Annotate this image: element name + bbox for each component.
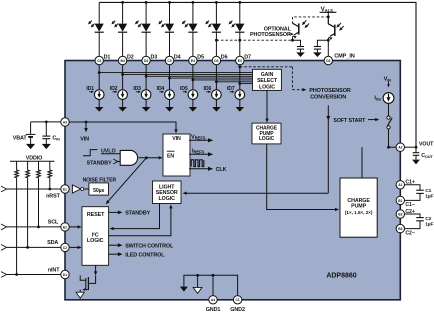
label I2C LOGIC bbox=[87, 233, 104, 245]
svg-text:ID3: ID3 bbox=[133, 86, 141, 92]
label SCL bbox=[48, 220, 59, 226]
svg-text:(1×, 1.5×, 2×): (1×, 1.5×, 2×) bbox=[345, 210, 373, 216]
label CMP_IN bbox=[334, 53, 355, 59]
wire D7 bus to gain select bbox=[240, 83, 253, 85]
wire VDDIO rail bbox=[10, 160, 55, 162]
UVLO step glyph bbox=[83, 150, 98, 156]
battery VBAT bbox=[26, 122, 36, 144]
wire main emitter to CMP_IN bbox=[327, 40, 329, 56]
ground nINT open bbox=[76, 292, 84, 298]
ground ID2 bbox=[118, 107, 127, 112]
pin C2+ bbox=[396, 210, 404, 218]
wire ID2 to ground bbox=[122, 99, 124, 107]
wire main cap branch bbox=[317, 40, 328, 43]
wire VOUT pin to rail bbox=[405, 146, 417, 148]
LED D5 bbox=[182, 21, 198, 33]
junction pull-up 4 bbox=[48, 188, 51, 191]
label VOUT bbox=[419, 141, 434, 147]
svg-text:STANDBY: STANDBY bbox=[87, 161, 112, 167]
junction VIN arrow bbox=[85, 121, 88, 124]
svg-text:VOUT: VOUT bbox=[419, 141, 434, 147]
svg-text:D6: D6 bbox=[221, 54, 228, 60]
svg-text:C4: C4 bbox=[97, 59, 101, 63]
wire I2C to NMOS bbox=[94, 265, 97, 275]
label VIN right bbox=[384, 76, 392, 82]
dashed wire VALS to optional photosensor bbox=[293, 17, 329, 22]
label EN in bias box bbox=[167, 151, 175, 159]
label VIN internal bbox=[80, 136, 89, 142]
svg-text:ADP8860: ADP8860 bbox=[326, 273, 356, 280]
svg-text:IREFS: IREFS bbox=[192, 149, 205, 155]
label NOISE FILTER bbox=[83, 177, 117, 183]
junction rail-D3 bbox=[145, 1, 148, 4]
pin nRST bbox=[61, 185, 69, 193]
current source ID1 bbox=[86, 86, 104, 99]
phototransistor main bbox=[328, 17, 343, 40]
AND gate U1 bbox=[120, 150, 137, 165]
label SDA bbox=[47, 240, 58, 246]
pin C2- bbox=[396, 224, 404, 232]
svg-text:B1: B1 bbox=[398, 199, 402, 203]
junction D5 bus bbox=[192, 79, 195, 82]
wire RESET to STANDBY bbox=[109, 211, 123, 215]
arrow VIN right bbox=[387, 81, 390, 87]
wire anode D4 bbox=[169, 2, 171, 23]
switch soft start bbox=[387, 116, 392, 129]
label C2- bbox=[405, 230, 414, 236]
junction pull-up 2 bbox=[26, 246, 29, 249]
label nRST bbox=[46, 193, 60, 199]
label C1 1uF bbox=[425, 188, 433, 200]
label C2 1uF bbox=[425, 216, 433, 228]
arrow into charge pump logic bbox=[265, 119, 268, 123]
svg-text:D1: D1 bbox=[63, 273, 67, 277]
label STANDBY out bbox=[125, 211, 150, 217]
junction D7 dashed bbox=[238, 65, 241, 68]
capacitor CIN bbox=[42, 122, 50, 144]
svg-text:ILED CONTROL: ILED CONTROL bbox=[125, 252, 165, 258]
wire SWITCH CONTROL bbox=[109, 243, 123, 247]
wire anode D1 bbox=[98, 2, 100, 23]
wire CLK out bbox=[189, 167, 213, 171]
svg-text:B2: B2 bbox=[398, 212, 402, 216]
svg-text:C3: C3 bbox=[167, 59, 171, 63]
wire charge pump top stub bbox=[361, 147, 363, 178]
wire internal ground bus bbox=[184, 275, 238, 295]
resistor pull-up 4 bbox=[48, 161, 52, 189]
svg-text:C1−: C1− bbox=[405, 202, 414, 208]
wire AND output to EN bbox=[139, 157, 160, 159]
junction D7 photo bbox=[238, 39, 241, 42]
junction rail-D6 bbox=[215, 1, 218, 4]
pin D1 bbox=[95, 56, 103, 64]
label RESET bbox=[87, 212, 105, 218]
junction D3 bus bbox=[145, 75, 148, 78]
wire D5 to current sink bbox=[192, 65, 194, 90]
current source ID3 bbox=[133, 86, 151, 99]
pin SDA bbox=[61, 243, 69, 251]
svg-text:1µF: 1µF bbox=[425, 194, 433, 200]
wire I2C to light sensor bbox=[109, 204, 173, 235]
wire D3 bus to gain select bbox=[146, 75, 252, 77]
label PHOTOSENSOR CONVERSION bbox=[309, 88, 351, 100]
svg-text:CONVERSION: CONVERSION bbox=[310, 94, 346, 100]
wire LED anode rail to VOUT node bbox=[99, 2, 416, 147]
svg-text:D3: D3 bbox=[151, 54, 158, 60]
ground COUT bbox=[412, 160, 420, 165]
wire SDA bbox=[1, 245, 61, 251]
svg-text:C2: C2 bbox=[63, 246, 67, 250]
label D5 bbox=[197, 54, 204, 60]
svg-text:VBAT: VBAT bbox=[13, 135, 28, 141]
wire nINT bbox=[1, 272, 61, 278]
LED D4 bbox=[158, 21, 174, 33]
wire D5 bus to gain select bbox=[193, 79, 253, 81]
label D7 bbox=[244, 54, 251, 60]
svg-text:SDA: SDA bbox=[47, 240, 58, 246]
wire VIN stub down bbox=[85, 122, 87, 129]
arrow VIN stub bbox=[84, 128, 88, 132]
svg-text:50µs: 50µs bbox=[93, 188, 104, 194]
pin C1+ bbox=[396, 181, 404, 189]
ground ID1 bbox=[95, 107, 104, 112]
junction AND output bbox=[145, 156, 148, 159]
label GAIN SELECT LOGIC bbox=[257, 72, 278, 90]
pin GND2 bbox=[233, 296, 241, 304]
label SOFT START bbox=[333, 118, 366, 124]
label C1+ bbox=[405, 179, 414, 185]
net VALS label bbox=[321, 6, 334, 13]
svg-text:RESET: RESET bbox=[87, 212, 105, 218]
svg-text:PHOTOSENSOR: PHOTOSENSOR bbox=[309, 88, 351, 94]
pin CMP_IN bbox=[324, 56, 332, 64]
resistor pull-up 2 bbox=[26, 161, 30, 247]
svg-text:STANDBY: STANDBY bbox=[125, 211, 150, 217]
label VREFS bbox=[191, 135, 206, 141]
phototransistor optional bbox=[293, 20, 310, 39]
pin D4 bbox=[165, 56, 173, 64]
wire VREFS out bbox=[189, 138, 213, 142]
label nINT bbox=[48, 267, 60, 273]
wire anode D5 bbox=[192, 2, 194, 23]
wire anode D6 bbox=[215, 2, 217, 23]
junction main emitter bbox=[327, 39, 330, 42]
svg-text:nINT: nINT bbox=[48, 267, 60, 273]
wire anode D2 bbox=[122, 2, 124, 23]
current source ID5 bbox=[180, 86, 198, 99]
ground ID3 bbox=[142, 107, 151, 112]
svg-text:D2: D2 bbox=[127, 54, 134, 60]
pin D7 bbox=[236, 56, 244, 64]
svg-text:VIN: VIN bbox=[80, 136, 89, 142]
label STANDBY into gate bbox=[87, 161, 112, 167]
svg-text:D1: D1 bbox=[104, 54, 111, 60]
arrow photosensor conversion bbox=[302, 88, 306, 91]
LED D3 bbox=[135, 21, 151, 33]
ground ID7 bbox=[236, 107, 245, 112]
current source ID4 bbox=[157, 86, 175, 99]
svg-text:D5: D5 bbox=[197, 54, 204, 60]
wire ID7 to ground bbox=[239, 99, 241, 107]
svg-text:LOGIC: LOGIC bbox=[259, 84, 275, 90]
junction D2 bus bbox=[121, 73, 124, 76]
wire VIN internal bbox=[69, 122, 176, 131]
capacitor COUT bbox=[413, 147, 420, 159]
VALS rail bar bbox=[320, 11, 337, 13]
wire VBAT/CIN to VIN pin bbox=[31, 121, 61, 123]
svg-text:ID7: ID7 bbox=[227, 86, 235, 92]
svg-text:SCL: SCL bbox=[48, 220, 59, 226]
junction rail-D4 bbox=[168, 1, 171, 4]
dashed wire D7 to photosensor conversion bbox=[240, 67, 304, 90]
pin D2 bbox=[118, 56, 126, 64]
wire UVLO to AND gate bbox=[101, 153, 120, 155]
svg-text:LOGIC: LOGIC bbox=[259, 136, 275, 142]
arrow SDA into I2C bbox=[69, 246, 81, 249]
svg-text:E2: E2 bbox=[63, 225, 67, 229]
svg-text:GAIN: GAIN bbox=[261, 72, 274, 78]
svg-text:VDDIO: VDDIO bbox=[26, 155, 43, 161]
label D4 bbox=[174, 54, 181, 60]
label VIN in bias box bbox=[172, 136, 181, 142]
wire GND1 bbox=[212, 275, 214, 295]
pin C1- bbox=[396, 196, 404, 204]
svg-text:A3: A3 bbox=[63, 120, 67, 124]
capacitor C1 bbox=[404, 185, 423, 201]
wire D2 to current sink bbox=[122, 65, 124, 90]
wire D4 to current sink bbox=[169, 65, 171, 90]
label UVLO bbox=[101, 148, 116, 154]
block gain select logic bbox=[253, 69, 282, 90]
svg-text:B4: B4 bbox=[120, 59, 124, 63]
wire VALS to phototransistors bbox=[327, 12, 329, 24]
svg-text:E4: E4 bbox=[191, 59, 195, 63]
capacitor optional photosensor bbox=[297, 43, 304, 52]
svg-text:A1: A1 bbox=[398, 183, 402, 187]
label D2 bbox=[127, 54, 134, 60]
label ILED CONTROL bbox=[125, 252, 165, 258]
svg-text:ID1: ID1 bbox=[86, 86, 94, 92]
junction gnd open bbox=[196, 274, 199, 277]
svg-text:C2−: C2− bbox=[405, 230, 414, 236]
svg-text:B3: B3 bbox=[398, 227, 402, 231]
svg-text:GND2: GND2 bbox=[230, 307, 245, 313]
pin D3 bbox=[142, 56, 150, 64]
svg-text:ID2: ID2 bbox=[110, 86, 118, 92]
wire D6 to current sink bbox=[215, 65, 217, 90]
junction rail-D7 bbox=[238, 1, 241, 4]
block charge pump logic bbox=[252, 123, 281, 144]
label LIGHT SENSOR LOGIC bbox=[156, 184, 178, 202]
ground ID6 bbox=[212, 107, 221, 112]
resistor pull-up 1 bbox=[15, 161, 19, 274]
wire charge pump logic to charge pump bbox=[267, 144, 339, 211]
arrow VIN into bias box bbox=[174, 129, 177, 133]
svg-text:VIN: VIN bbox=[172, 136, 181, 142]
wire CMP_IN down bbox=[327, 105, 329, 193]
label D3 bbox=[151, 54, 158, 60]
ground VBAT bbox=[26, 144, 35, 149]
arrow SCL into I2C bbox=[69, 225, 81, 228]
label CLK bbox=[216, 167, 227, 173]
svg-text:1µF: 1µF bbox=[425, 222, 433, 228]
ground CIN bbox=[42, 144, 51, 149]
arrow to soft start switch bbox=[368, 118, 379, 121]
wire D6 bus to gain select bbox=[216, 81, 252, 83]
svg-text:A4: A4 bbox=[211, 298, 215, 302]
svg-text:COUT: COUT bbox=[421, 153, 433, 159]
svg-text:D3: D3 bbox=[214, 59, 218, 63]
svg-text:E1: E1 bbox=[63, 187, 67, 191]
wire D7 to current sink bbox=[239, 65, 241, 90]
LED D6 bbox=[205, 21, 221, 33]
wire cathode D4 bbox=[169, 32, 171, 56]
svg-text:CIN: CIN bbox=[52, 136, 60, 142]
label GND2 bbox=[230, 307, 245, 313]
svg-text:C1: C1 bbox=[425, 188, 431, 194]
wire switch to VOUT bbox=[388, 129, 390, 147]
junction pull-up 3 bbox=[37, 226, 40, 229]
junction D1 bus bbox=[98, 71, 101, 74]
svg-text:GND1: GND1 bbox=[206, 307, 221, 313]
wire ISS to switch bbox=[388, 103, 390, 116]
pin VIN bbox=[61, 118, 69, 126]
junction pull-up 1 bbox=[15, 273, 18, 276]
label IREFS bbox=[192, 149, 205, 155]
label COUT bbox=[421, 153, 433, 159]
wire D3 to current sink bbox=[145, 65, 147, 90]
wire cathode D1 bbox=[98, 32, 100, 56]
block charge pump bbox=[340, 178, 377, 237]
current source ID7 bbox=[227, 86, 245, 99]
block bias (VIN/EN) bbox=[163, 134, 190, 176]
junction D6 bus bbox=[215, 80, 218, 83]
svg-text:VREFS: VREFS bbox=[191, 135, 206, 141]
wire ID5 to ground bbox=[192, 99, 194, 107]
junction D4 bus bbox=[168, 77, 171, 80]
pin D6 bbox=[212, 56, 220, 64]
label CHARGE PUMP LOGIC bbox=[256, 125, 278, 142]
pin GND1 bbox=[209, 296, 217, 304]
dashed wire photosensor to D6 D7 bbox=[216, 39, 292, 41]
buffer nRST bbox=[72, 185, 83, 193]
svg-text:EN: EN bbox=[167, 153, 174, 159]
svg-text:PUMP: PUMP bbox=[351, 204, 366, 210]
svg-text:D2: D2 bbox=[326, 59, 330, 63]
label CIN bbox=[52, 136, 60, 142]
label D1 bbox=[104, 54, 111, 60]
ground internal open bbox=[193, 287, 202, 293]
LED D7 bbox=[229, 21, 245, 33]
junction CIN bbox=[45, 121, 48, 124]
junction VALS dashed bbox=[327, 16, 330, 19]
wire optional cap branch bbox=[293, 40, 301, 43]
label OPTIONAL PHOTOSENSOR bbox=[250, 26, 294, 38]
transistor nINT NMOS Q1 bbox=[80, 275, 95, 292]
svg-text:ID6: ID6 bbox=[204, 86, 212, 92]
arrow into reset box bbox=[106, 200, 110, 204]
junction rail-D2 bbox=[121, 1, 124, 4]
svg-text:LOGIC: LOGIC bbox=[159, 196, 176, 202]
svg-text:D4: D4 bbox=[144, 59, 148, 63]
wire anode D7 bbox=[239, 2, 241, 23]
resistor pull-up 3 bbox=[37, 161, 41, 227]
arrow into EN bbox=[159, 156, 163, 159]
IC body ADP8860 bbox=[65, 61, 400, 300]
wire ID6 to ground bbox=[215, 99, 217, 107]
wire gain select to charge pump logic bbox=[266, 90, 268, 119]
wire to open ground bbox=[197, 275, 199, 287]
wire nRST bbox=[1, 186, 61, 192]
svg-text:PHOTOSENSOR: PHOTOSENSOR bbox=[250, 32, 291, 38]
wire IREFS out bbox=[189, 152, 213, 156]
wire ILED CONTROL bbox=[109, 252, 123, 256]
ground ID4 bbox=[165, 107, 174, 112]
svg-text:CLK: CLK bbox=[216, 167, 227, 173]
LED D1 bbox=[88, 21, 104, 33]
wire light sensor to I2C bbox=[110, 204, 160, 231]
wire buffer to 50us box bbox=[84, 188, 89, 190]
wire cathode D3 bbox=[145, 32, 147, 56]
pin VOUT bbox=[396, 143, 404, 151]
wire anode D3 bbox=[145, 2, 147, 23]
wire D1 bus to gain select bbox=[99, 72, 252, 74]
clock waveform glyph bbox=[191, 160, 204, 167]
wire D1 to current sink bbox=[98, 65, 100, 90]
wire ID3 to ground bbox=[145, 99, 147, 107]
block noise filter 50us bbox=[89, 183, 109, 195]
junction optional emitter bbox=[291, 39, 294, 42]
label D6 bbox=[221, 54, 228, 60]
wire cathode D6 bbox=[215, 32, 217, 56]
pin D5 bbox=[189, 56, 197, 64]
svg-text:ID4: ID4 bbox=[157, 86, 165, 92]
svg-text:D4: D4 bbox=[174, 54, 181, 60]
svg-text:SELECT: SELECT bbox=[257, 78, 278, 84]
wire cathode D7 bbox=[239, 32, 241, 56]
current source ID2 bbox=[110, 86, 128, 99]
wire AND output to reset (diagonal) bbox=[107, 158, 146, 203]
wire SCL bbox=[1, 224, 61, 230]
label ADP8860 bbox=[326, 273, 356, 280]
pin SCL bbox=[61, 223, 69, 231]
svg-text:LOGIC: LOGIC bbox=[87, 238, 104, 244]
svg-text:C1: C1 bbox=[235, 298, 239, 302]
svg-text:ISS: ISS bbox=[374, 96, 381, 102]
current source ISS bbox=[383, 93, 394, 104]
junction rail-D5 bbox=[192, 1, 195, 4]
ground optional cap bbox=[296, 52, 305, 57]
open arrow STANDBY bbox=[113, 159, 120, 164]
block light sensor logic bbox=[153, 181, 182, 204]
ground main cap bbox=[313, 52, 322, 57]
current source ID6 bbox=[204, 86, 222, 99]
junction switch VOUT bbox=[387, 146, 390, 149]
wire ID4 to ground bbox=[169, 99, 171, 107]
wire cathode D5 bbox=[192, 32, 194, 56]
label VDDIO bbox=[26, 155, 43, 161]
pin nINT bbox=[61, 270, 69, 278]
junction D7 bus bbox=[238, 82, 241, 85]
label GND1 bbox=[206, 307, 221, 313]
svg-text:D7: D7 bbox=[244, 54, 251, 60]
label C2+ bbox=[405, 209, 414, 215]
label CHARGE PUMP 1x 1.5x 2x bbox=[345, 198, 373, 216]
svg-text:CMP_IN: CMP_IN bbox=[334, 53, 355, 59]
label C1- bbox=[405, 202, 414, 208]
ground internal filled bbox=[180, 287, 188, 292]
capacitor C2 bbox=[404, 214, 423, 229]
